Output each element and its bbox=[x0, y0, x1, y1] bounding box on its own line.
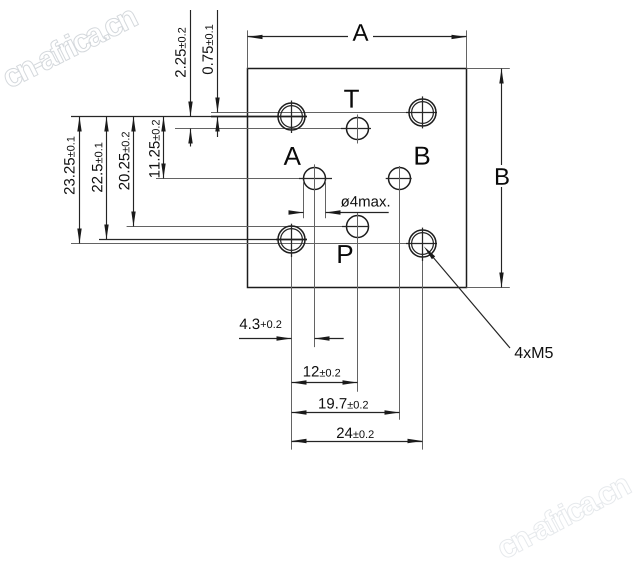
port hole B bbox=[389, 168, 411, 190]
dim 20.25±0.2 line bbox=[133, 117, 135, 227]
dim 23.25±0.1 line bbox=[79, 117, 81, 244]
dim 12±0.2 line bbox=[292, 382, 358, 384]
dim 19.7±0.2 line bbox=[292, 412, 400, 414]
label port T bbox=[344, 90, 359, 108]
ext line T row bbox=[175, 128, 341, 130]
ext line P row bbox=[127, 226, 342, 228]
port hole P bbox=[347, 216, 369, 238]
dim 24±0.2 label bbox=[337, 428, 374, 439]
ext line top-left bolt row y=116.5 bbox=[71, 116, 211, 118]
plate outline bbox=[248, 69, 467, 288]
dim 11.25±0.2 line bbox=[163, 117, 165, 179]
dim 2.25±0.2 label bbox=[175, 28, 186, 77]
dim Ø4max line bbox=[289, 212, 304, 214]
dim 4.3+0.2 label bbox=[240, 319, 260, 330]
dim 2.25±0.2 line bbox=[190, 10, 192, 117]
label port A bbox=[284, 147, 301, 165]
ext column port A bbox=[314, 164, 316, 347]
dim 4.3+0.2 line bbox=[239, 338, 292, 340]
dim 0.75±0.1 line bbox=[217, 10, 219, 113]
watermark top-left bbox=[0, 4, 139, 89]
ext line bottom-left bolt row y=239.7 bbox=[99, 239, 276, 241]
dim 19.7±0.2 label bbox=[319, 398, 368, 409]
dim Ø4max extension lines bbox=[303, 181, 305, 219]
dim 22.5±0.1 line bbox=[106, 117, 108, 240]
dim 20.25±0.2 label bbox=[119, 132, 130, 190]
ext column port B bbox=[399, 166, 401, 420]
ext line bottom-right bolt row y=243.6 bbox=[71, 243, 406, 245]
dim 23.25±0.1 label bbox=[64, 137, 75, 195]
label port P bbox=[338, 245, 352, 263]
ext line A row bbox=[156, 178, 299, 180]
label port B bbox=[416, 147, 430, 165]
dim B label bbox=[496, 168, 509, 185]
dim 12±0.2 label bbox=[304, 366, 340, 377]
dim Ø4max label bbox=[341, 196, 389, 207]
label 4xM5 bbox=[515, 347, 553, 358]
ext column right bolts to bottom dims bbox=[422, 261, 424, 450]
ext line top-right bolt row y=112.4 bbox=[211, 112, 406, 114]
port hole A bbox=[304, 168, 326, 190]
dim 11.25±0.2 label bbox=[149, 120, 160, 177]
dim B extension lines bbox=[467, 68, 510, 70]
bolt hole top-right (M5) bbox=[409, 99, 436, 126]
dim B line bbox=[501, 69, 503, 166]
dim 22.5±0.1 label bbox=[92, 143, 103, 192]
bolt hole bottom-left (M5) bbox=[278, 226, 305, 253]
leader 4xM5 bbox=[427, 250, 511, 349]
dim A label bbox=[353, 24, 369, 41]
watermark bottom-right bbox=[494, 472, 632, 560]
bolt hole top-left (M5) bbox=[278, 103, 305, 130]
dim 24±0.2 line bbox=[292, 441, 423, 443]
dim A extension lines bbox=[247, 30, 249, 68]
dim 0.75±0.1 label bbox=[202, 25, 213, 74]
dim A line bbox=[248, 36, 349, 38]
port hole T bbox=[347, 118, 369, 140]
ext column left bolts to bottom dims bbox=[291, 257, 293, 450]
bolt hole bottom-right (M5) bbox=[409, 230, 436, 257]
ext column ports T/P bbox=[357, 212, 359, 392]
